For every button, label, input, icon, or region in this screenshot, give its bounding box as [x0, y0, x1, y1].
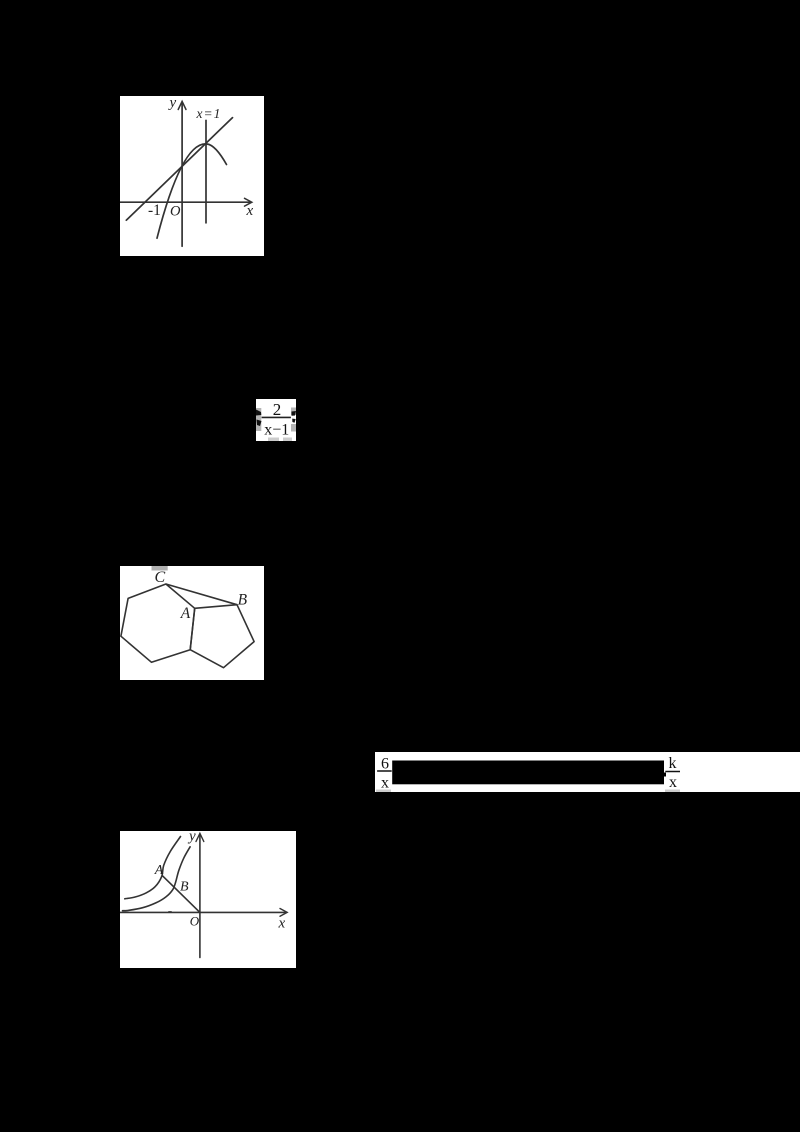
svg-text:x: x — [669, 774, 677, 791]
svg-text:-1: -1 — [148, 202, 161, 219]
svg-text:x=1: x=1 — [196, 106, 222, 121]
svg-text:B: B — [180, 880, 189, 895]
svg-text:B: B — [238, 592, 248, 609]
svg-text:2: 2 — [273, 400, 282, 419]
svg-text:6: 6 — [381, 755, 389, 772]
svg-text:k: k — [669, 755, 677, 772]
svg-text:y: y — [187, 831, 196, 845]
svg-text:x: x — [278, 916, 286, 932]
svg-text:A: A — [180, 605, 191, 622]
svg-text:x: x — [381, 774, 389, 791]
svg-text:y: y — [168, 96, 177, 111]
svg-text:C: C — [155, 569, 166, 586]
svg-text:O: O — [190, 914, 200, 929]
svg-text:x−1: x−1 — [264, 422, 289, 439]
svg-text:A: A — [154, 863, 164, 878]
svg-text:x: x — [246, 203, 254, 219]
svg-text:O: O — [170, 204, 181, 220]
